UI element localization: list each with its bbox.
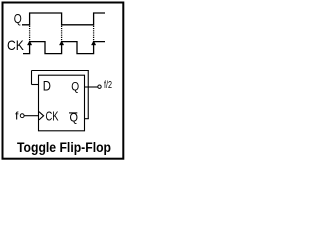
wire: feedback top horizontal <box>32 70 89 72</box>
terminal circle f/2 <box>98 85 101 88</box>
svg-text:D: D <box>43 77 51 93</box>
terminal circle f input <box>20 114 24 118</box>
flip-flop U1 body <box>39 75 85 131</box>
svg-text:CK: CK <box>46 108 59 123</box>
svg-text:Q: Q <box>70 113 79 125</box>
CK clock waveform <box>23 42 105 54</box>
wire: f input to CK pin <box>24 115 38 117</box>
Qbar overbar <box>69 112 77 114</box>
svg-text:CK: CK <box>7 37 24 53</box>
svg-text:Q: Q <box>71 80 79 94</box>
svg-text:Toggle Flip-Flop: Toggle Flip-Flop <box>17 140 111 155</box>
wire: D input from feedback <box>32 84 39 86</box>
arrowhead second clock edge <box>59 41 63 45</box>
dotted timing line at third clock edge <box>93 26 95 41</box>
Q output waveform <box>22 13 105 25</box>
wire: Q output to f/2 terminal <box>85 86 98 88</box>
wire: feedback left vertical <box>31 71 33 85</box>
svg-text:Q: Q <box>14 11 22 26</box>
dotted timing line at first clock edge <box>29 26 31 41</box>
dotted timing line at second clock edge <box>61 26 63 41</box>
arrowhead third clock edge <box>91 41 95 45</box>
wire: feedback right vertical <box>87 71 89 119</box>
svg-text:f/2: f/2 <box>104 80 112 91</box>
frame border <box>3 3 124 159</box>
clock edge triangle <box>39 112 44 120</box>
wire: Qbar output stub <box>85 118 89 120</box>
arrowhead first clock edge <box>27 41 31 45</box>
